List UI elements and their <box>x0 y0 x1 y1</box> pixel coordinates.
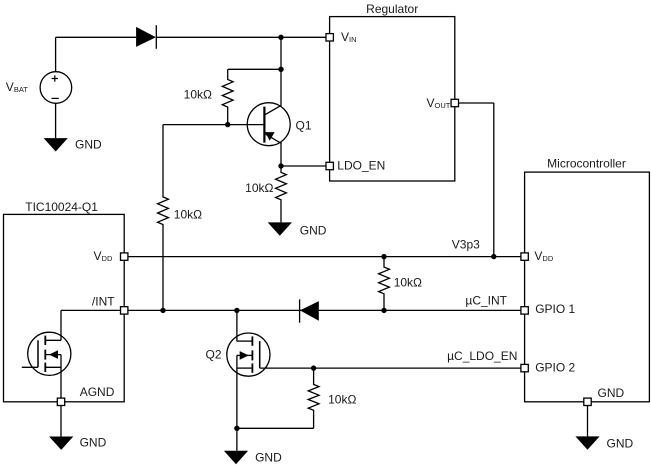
svg-text:GND: GND <box>75 137 102 151</box>
svg-text:GND: GND <box>255 450 282 464</box>
svg-text:Q1: Q1 <box>296 119 312 133</box>
svg-text:Q2: Q2 <box>205 348 221 362</box>
svg-text:Microcontroller: Microcontroller <box>547 157 626 171</box>
svg-text:GND: GND <box>80 435 107 449</box>
svg-text:µC_INT: µC_INT <box>465 294 507 308</box>
svg-text:TIC10024-Q1: TIC10024-Q1 <box>25 200 98 214</box>
svg-text:GND: GND <box>598 386 625 400</box>
svg-text:GPIO 1: GPIO 1 <box>535 302 575 316</box>
svg-text:/INT: /INT <box>92 295 115 309</box>
svg-text:µC_LDO_EN: µC_LDO_EN <box>447 349 517 363</box>
svg-text:GND: GND <box>607 436 634 450</box>
svg-text:10kΩ: 10kΩ <box>394 276 422 290</box>
svg-text:10kΩ: 10kΩ <box>328 392 356 406</box>
svg-text:10kΩ: 10kΩ <box>174 208 202 222</box>
svg-text:LDO_EN: LDO_EN <box>337 158 385 172</box>
svg-text:10kΩ: 10kΩ <box>245 181 273 195</box>
svg-text:V3p3: V3p3 <box>452 237 480 251</box>
svg-text:AGND: AGND <box>80 385 115 399</box>
svg-text:10kΩ: 10kΩ <box>184 88 212 102</box>
svg-text:GPIO 2: GPIO 2 <box>535 361 575 375</box>
svg-text:Regulator: Regulator <box>366 2 418 16</box>
svg-text:GND: GND <box>300 223 327 237</box>
